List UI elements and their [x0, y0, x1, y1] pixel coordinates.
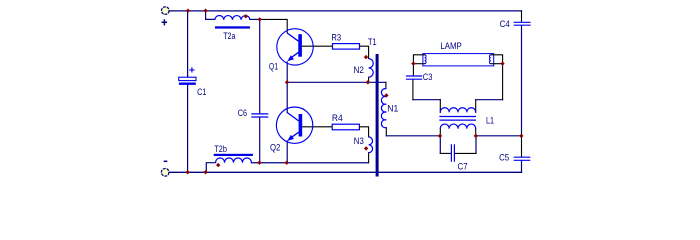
svg-text:R4: R4 — [332, 113, 343, 124]
svg-text:Q1: Q1 — [269, 61, 278, 72]
svg-text:C7: C7 — [458, 161, 468, 172]
svg-text:C5: C5 — [499, 153, 509, 164]
svg-text:L1: L1 — [486, 115, 494, 126]
svg-text:T2b: T2b — [214, 144, 227, 155]
svg-text:N1: N1 — [387, 104, 398, 115]
svg-text:N2: N2 — [354, 65, 364, 76]
svg-text:Q2: Q2 — [270, 142, 280, 153]
svg-text:T1: T1 — [368, 37, 377, 48]
svg-text:C6: C6 — [238, 108, 247, 119]
svg-text:LAMP: LAMP — [440, 41, 461, 52]
svg-text:C3: C3 — [423, 72, 433, 83]
svg-text:C4: C4 — [500, 19, 511, 30]
svg-text:C1: C1 — [197, 87, 206, 98]
svg-text:N3: N3 — [354, 136, 364, 147]
svg-text:R3: R3 — [331, 33, 341, 44]
svg-text:T2a: T2a — [223, 31, 236, 42]
